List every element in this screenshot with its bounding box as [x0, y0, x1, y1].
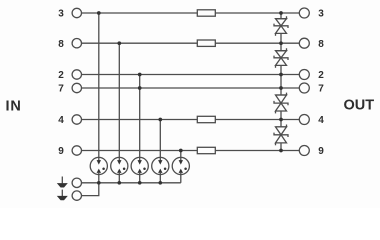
terminal lower ground: [72, 191, 81, 200]
junction dot line 9 / suppressor chain: [279, 149, 283, 153]
wire vertical drop from line 8 to arrester F2: [118, 43, 120, 158]
wire ground bus: [82, 182, 181, 184]
wire line 9 right segment: [215, 150, 299, 152]
junction dot line 7 / suppressor chain: [279, 86, 283, 90]
resistor R3 line 4: [197, 116, 215, 122]
terminal 3 IN: [72, 8, 81, 17]
svg-text:7: 7: [58, 84, 64, 95]
svg-text:2: 2: [318, 70, 324, 81]
terminal 7 OUT: [299, 83, 309, 93]
svg-text:9: 9: [58, 146, 64, 157]
junction dot line 3 / suppressor chain: [279, 11, 283, 15]
terminal 9 OUT: [299, 146, 309, 156]
svg-text:3: 3: [58, 9, 64, 20]
wire arrester F4 bottom to ground bus: [159, 174, 161, 183]
svg-text:4: 4: [58, 115, 64, 126]
junction dot line 7 / drop 3: [138, 86, 142, 90]
wire right suppressor chain segment 3 to D1: [280, 13, 282, 19]
wire vertical drop from line 2 through line 7 to arrester F3: [139, 75, 141, 159]
wire line 3 right segment: [215, 12, 299, 14]
junction dot line 4 / suppressor chain: [279, 118, 283, 122]
junction dot line 3 / drop 1: [97, 11, 101, 15]
wire line 4 left segment: [82, 119, 198, 121]
wire arrester F1 bottom to ground bus: [98, 174, 100, 183]
svg-text:8: 8: [58, 39, 64, 50]
gas discharge arrester F3: [131, 157, 148, 174]
junction dot line 8 / suppressor chain: [279, 41, 283, 45]
wire right suppressor chain segment D1 to line 8: [280, 33, 282, 50]
wire right suppressor chain segment D3 to line 4: [280, 111, 282, 127]
terminal 7 IN: [72, 83, 81, 92]
wire line 9 left segment: [82, 150, 198, 152]
gas discharge arrester F5: [172, 157, 189, 174]
terminal 4 IN: [72, 115, 81, 124]
suppressor diode D1 between line 3 and line 8: [274, 16, 288, 36]
wire line 2: [82, 74, 300, 76]
junction dot ground bus / arrester F2: [117, 181, 121, 185]
wire arrester F2 bottom to ground bus: [118, 174, 120, 183]
suppressor diode D3 between line 7 and line 4: [274, 93, 288, 114]
junction dot ground bus / arrester F4: [158, 181, 162, 185]
wire line 8 left segment: [82, 42, 198, 44]
terminal 2 OUT: [299, 70, 309, 80]
svg-text:3: 3: [318, 9, 324, 20]
wire arrester F5 bottom to ground bus: [180, 174, 182, 183]
junction dot line 2 / suppressor chain: [279, 73, 283, 77]
terminal 8 IN: [72, 39, 81, 48]
wire vertical drop from line 9 to arrester F5: [180, 151, 182, 159]
svg-text:2: 2: [58, 70, 64, 81]
junction dot ground bus / arrester F3: [138, 181, 142, 185]
terminal 8 OUT: [299, 38, 309, 48]
ground symbol lower: [57, 190, 68, 201]
svg-text:IN: IN: [6, 98, 22, 114]
svg-text:7: 7: [318, 84, 324, 95]
junction dot ground bus / arrester F1: [97, 181, 101, 185]
svg-text:OUT: OUT: [344, 97, 375, 113]
terminal upper ground: [72, 178, 81, 187]
wire line 3 left segment: [82, 12, 198, 14]
wire line 8 right segment: [215, 42, 299, 44]
gas discharge arrester F4: [152, 157, 169, 174]
terminal 2 IN: [72, 70, 81, 79]
wire line 7: [82, 87, 300, 89]
wire right suppressor chain segment D4 to line 9: [280, 143, 282, 151]
svg-text:4: 4: [318, 115, 324, 126]
junction dot line 2 / drop 3: [138, 73, 142, 77]
terminal 3 OUT: [299, 8, 309, 18]
wire lower ground terminal riser: [82, 183, 99, 196]
terminal 9 IN: [72, 146, 81, 155]
gas discharge arrester F1: [90, 157, 107, 174]
junction dot line 9 / drop 5: [179, 149, 183, 153]
suppressor diode D2 between line 8 and line 2: [274, 48, 288, 68]
junction dot line 8 / drop 2: [117, 41, 121, 45]
wire vertical drop from line 4 to arrester F4: [159, 120, 161, 159]
wire vertical drop from line 3 to arrester F1: [98, 13, 100, 158]
terminal 4 OUT: [299, 115, 309, 125]
svg-text:8: 8: [318, 39, 324, 50]
svg-text:9: 9: [318, 146, 324, 157]
wire arrester F3 bottom to ground bus: [139, 174, 141, 183]
suppressor diode D4 between line 4 and line 9: [274, 125, 288, 146]
junction dot line 4 / drop 4: [158, 118, 162, 122]
wire right suppressor chain segment D2 to line 2 and line 7: [280, 65, 282, 95]
wire line 4 right segment: [215, 119, 299, 121]
resistor R1 line 3: [197, 10, 215, 16]
gas discharge arrester F2: [111, 157, 128, 174]
resistor R2 line 8: [197, 40, 215, 46]
resistor R4 line 9: [197, 147, 215, 153]
ground symbol upper: [57, 177, 68, 188]
